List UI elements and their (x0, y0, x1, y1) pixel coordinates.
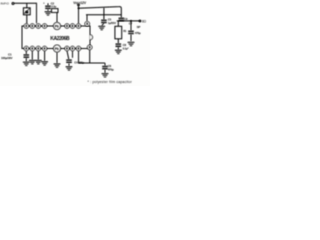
svg-text:Pb: Pb (55, 47, 59, 51)
svg-text:KA2206B: KA2206B (50, 36, 70, 42)
svg-text:2.2µ: 2.2µ (51, 5, 56, 9)
svg-text:Pb: Pb (55, 24, 59, 28)
svg-text:IN-P-O: IN-P-O (1, 2, 10, 6)
svg-text:1µ/50V: 1µ/50V (108, 21, 116, 25)
svg-text:470µ: 470µ (135, 31, 141, 35)
svg-text:Vcc=12V: Vcc=12V (73, 1, 87, 5)
svg-text:470µ: 470µ (108, 67, 114, 71)
svg-text:C4 100µ: C4 100µ (74, 61, 84, 65)
svg-text:100µ/16V: 100µ/16V (1, 56, 13, 60)
svg-text:+: + (43, 2, 45, 6)
svg-text:SP: SP (137, 25, 141, 29)
svg-text:* : polyester film capacitor: * : polyester film capacitor (88, 80, 133, 84)
